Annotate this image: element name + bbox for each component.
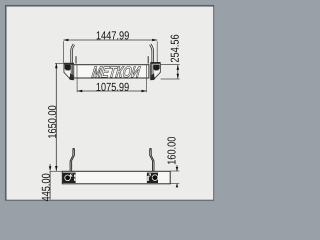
right bracket lower blob bbox=[151, 73, 155, 80]
bottom left hook bbox=[70, 149, 73, 172]
beam right end inner line bbox=[145, 65, 147, 78]
left bracket lower blob bbox=[69, 73, 73, 80]
bottom right bracket plate bbox=[147, 173, 158, 183]
left bracket outline bbox=[64, 64, 74, 80]
dimension D2 text 254.56 bbox=[171, 35, 179, 62]
bottom right bracket dark bottom band bbox=[147, 181, 158, 183]
bottom right hook tip bbox=[150, 148, 152, 149]
bottom left bracket white notch right bbox=[74, 174, 75, 180]
dimension D5 445.00 line bbox=[49, 171, 51, 199]
dimension D1 text 1447.99 bbox=[97, 31, 129, 39]
border frame dark line bbox=[6, 6, 214, 201]
bottom right bracket bolt bbox=[153, 175, 158, 180]
bottom right bracket white notch left bbox=[147, 176, 149, 181]
dimension D6 bottom extension line bbox=[170, 183, 179, 185]
bottom left bracket bolt bbox=[65, 176, 70, 181]
right bracket outline bbox=[151, 64, 161, 80]
dimension D4 top extension line bbox=[55, 62, 64, 64]
dimension D1 left extension line bbox=[63, 41, 65, 63]
right hook bent bar bbox=[151, 44, 154, 63]
dimension D6 text 160.00 bbox=[167, 137, 175, 164]
dimension D4 top arrow bbox=[55, 63, 58, 68]
top view beam body bbox=[74, 65, 149, 78]
dimension D1 1447.99 line bbox=[63, 39, 157, 41]
dimension D2 bottom arrow bbox=[177, 74, 180, 79]
left hook bars through bracket bbox=[70, 64, 72, 79]
dimension D1 right extension line bbox=[156, 41, 158, 62]
bottom beam top edge extension to left bbox=[50, 170, 63, 172]
right bracket top plate bbox=[150, 62, 160, 64]
right bracket clamp blob bbox=[153, 65, 159, 71]
drawing sheet background bbox=[7, 7, 213, 200]
dimension D4 1650.00 line bbox=[55, 63, 57, 170]
dimension D2 bottom extension line bbox=[161, 78, 180, 80]
bottom left bracket white ring bbox=[65, 175, 71, 181]
dimension D3 line bbox=[77, 90, 146, 92]
dimension D1 right arrow bbox=[152, 39, 157, 42]
bottom left bracket dark divider bbox=[72, 173, 75, 182]
right hook second bar bbox=[148, 56, 149, 63]
left bracket clamp blob bbox=[65, 65, 71, 71]
dimension D3 right extension line bbox=[145, 78, 147, 92]
dimension D3 left arrow bbox=[77, 90, 82, 93]
dimension D4 bottom arrow bbox=[55, 166, 58, 171]
dimension D6 lower stub with up arrow bbox=[176, 184, 178, 187]
bottom left bracket white notch top-right bbox=[70, 173, 72, 176]
dimension D2 254.56 top extension line bbox=[161, 64, 180, 66]
right bracket white notch bbox=[154, 71, 159, 77]
dimension D3 right arrow bbox=[142, 90, 147, 93]
dimension D6 upper line with down arrow bbox=[176, 165, 178, 171]
bottom view beam body bbox=[62, 171, 170, 184]
dimension D4 text 1650.00 bbox=[48, 106, 56, 138]
dimension D5 down arrow bbox=[49, 166, 52, 171]
left hook bent bar bbox=[71, 44, 74, 64]
beam left end inner line bbox=[76, 65, 78, 78]
bottom right bracket white notch top-left bbox=[149, 173, 151, 176]
bottom right hook bbox=[151, 149, 154, 172]
bottom right bracket diagonal arm bbox=[147, 173, 152, 178]
bottom left bracket diagonal arm bbox=[70, 173, 75, 179]
dimension D3 1075.99 left extension line bbox=[76, 78, 78, 92]
dimension D2 top arrow bbox=[177, 65, 180, 70]
dimension D2 line bbox=[177, 65, 179, 79]
dimension D3 text 1075.99 bbox=[97, 83, 129, 91]
METKON logo text bbox=[92, 66, 141, 77]
bottom left bracket plate bbox=[63, 173, 76, 183]
dimension D1 left arrow bbox=[63, 39, 68, 42]
bottom left hook tip bbox=[73, 148, 75, 149]
dimension D6 160.00 top extension line bbox=[170, 170, 179, 172]
dimension D5 text 445.00 bbox=[42, 174, 50, 202]
bottom right bracket white ring bbox=[152, 175, 158, 181]
right hook bars through bracket bbox=[152, 63, 154, 78]
border frame outer gray bbox=[0, 0, 220, 208]
dimension D5 arrow stem bbox=[49, 164, 51, 167]
bottom left bracket dark bottom band bbox=[63, 181, 76, 183]
left bracket top plate bbox=[64, 63, 74, 65]
left bracket white notch bbox=[65, 71, 70, 77]
left hook second bar bbox=[76, 56, 77, 63]
